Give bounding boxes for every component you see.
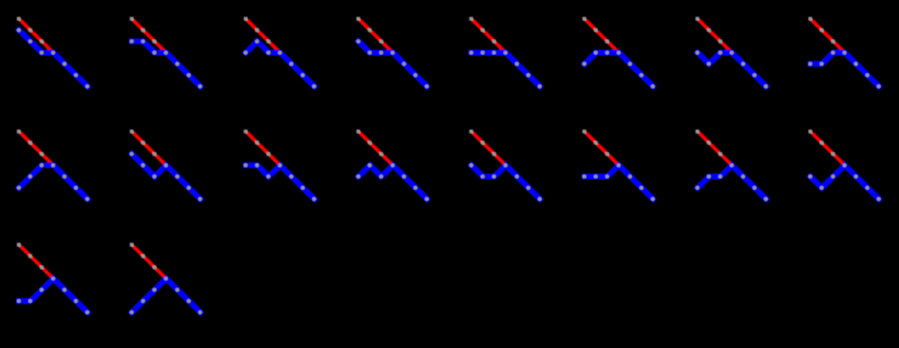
cell 6 (UHH): blue path circle markers	[582, 51, 654, 89]
cell 10 (DDU): blue path circle markers	[130, 152, 202, 201]
cell 5 (HHH): blue lattice path	[471, 53, 540, 87]
cell 17 (HUU): blue path circle markers	[17, 277, 89, 315]
cell 1 (DDH): blue lattice path	[19, 30, 88, 86]
cell 18 (UUU): red diagonal line	[132, 245, 166, 279]
cell 11 (HDU): red diagonal line	[246, 131, 280, 165]
cell 12 (UDU): red line square markers	[356, 130, 394, 167]
cell 13 (DHU): blue lattice path	[471, 165, 540, 199]
cell 17 (HUU): red line square markers	[17, 243, 55, 281]
cell 12 (UDU): blue lattice path	[358, 165, 427, 199]
cell 1 (DDH): blue path circle markers	[17, 28, 89, 88]
cell 13 (DHU): red line square markers	[469, 130, 507, 167]
cell 8 (HUH): red diagonal line	[810, 19, 844, 53]
cell 6 (UHH): blue lattice path	[584, 53, 653, 87]
cell 7 (DUH): blue path circle markers	[696, 51, 768, 89]
cell 17 (HUU): red diagonal line	[19, 245, 53, 279]
cell 18 (UUU): blue lattice path	[132, 279, 201, 313]
cell 16 (DUU): red line square markers	[808, 130, 846, 167]
cell 5 (HHH): blue path circle markers	[469, 51, 541, 89]
cell 2 (HDH): blue lattice path	[132, 41, 201, 86]
cell 9 (UUH): blue lattice path	[19, 165, 88, 199]
cell 2 (HDH): blue path circle markers	[130, 39, 202, 88]
cell 10 (DDU): red line square markers	[130, 130, 168, 167]
cell 14 (HHU): blue lattice path	[584, 165, 653, 199]
cell 13 (DHU): red diagonal line	[471, 131, 505, 165]
cell 16 (DUU): blue lattice path	[810, 165, 879, 199]
cell 13 (DHU): blue path circle markers	[469, 163, 541, 201]
cell 15 (UHU): red diagonal line	[697, 131, 731, 165]
cell 2 (HDH): red diagonal line	[132, 19, 166, 53]
cell 5 (HHH): red line square markers	[469, 17, 507, 55]
cell 17 (HUU): blue lattice path	[19, 279, 88, 313]
cell 3 (UDH): blue path circle markers	[244, 39, 316, 88]
cell 14 (HHU): red diagonal line	[584, 131, 618, 165]
cell 2 (HDH): red line square markers	[130, 17, 168, 55]
cell 15 (UHU): blue lattice path	[697, 165, 766, 199]
cell 4 (DHH): blue path circle markers	[356, 39, 428, 88]
cell 4 (DHH): blue lattice path	[358, 41, 427, 86]
cell 11 (HDU): red line square markers	[244, 130, 282, 167]
cell 18 (UUU): red line square markers	[130, 243, 168, 281]
cell 7 (DUH): red diagonal line	[697, 19, 731, 53]
cell 16 (DUU): blue path circle markers	[808, 163, 880, 201]
cell 5 (HHH): red diagonal line	[471, 19, 505, 53]
cell 6 (UHH): red line square markers	[582, 17, 620, 55]
cell 1 (DDH): red line square markers	[17, 17, 55, 55]
cell 8 (HUH): red line square markers	[808, 17, 846, 55]
cell 15 (UHU): red line square markers	[696, 130, 734, 167]
cell 12 (UDU): red diagonal line	[358, 131, 392, 165]
cell 4 (DHH): red diagonal line	[358, 19, 392, 53]
cell 15 (UHU): blue path circle markers	[696, 163, 768, 201]
cell 9 (UUH): red diagonal line	[19, 131, 53, 165]
cell 7 (DUH): red line square markers	[696, 17, 734, 55]
cell 10 (DDU): red diagonal line	[132, 131, 166, 165]
cell 9 (UUH): red line square markers	[17, 130, 55, 167]
cell 7 (DUH): blue lattice path	[697, 53, 766, 87]
cell 6 (UHH): red diagonal line	[584, 19, 618, 53]
cell 14 (HHU): red line square markers	[582, 130, 620, 167]
cell 14 (HHU): blue path circle markers	[582, 163, 654, 201]
cell 8 (HUH): blue path circle markers	[808, 51, 880, 89]
cell 11 (HDU): blue lattice path	[246, 165, 315, 199]
cell 3 (UDH): blue lattice path	[246, 41, 315, 86]
cell 8 (HUH): blue lattice path	[810, 53, 879, 87]
cell 9 (UUH): blue path circle markers	[17, 163, 89, 201]
cell 1 (DDH): red diagonal line	[19, 19, 53, 53]
cell 4 (DHH): red line square markers	[356, 17, 394, 55]
cell 3 (UDH): red diagonal line	[246, 19, 280, 53]
cell 10 (DDU): blue lattice path	[132, 154, 201, 199]
cell 11 (HDU): blue path circle markers	[244, 163, 316, 201]
cell 16 (DUU): red diagonal line	[810, 131, 844, 165]
cell 12 (UDU): blue path circle markers	[356, 163, 428, 201]
cell 18 (UUU): blue path circle markers	[130, 277, 202, 315]
cell 3 (UDH): red line square markers	[244, 17, 282, 55]
